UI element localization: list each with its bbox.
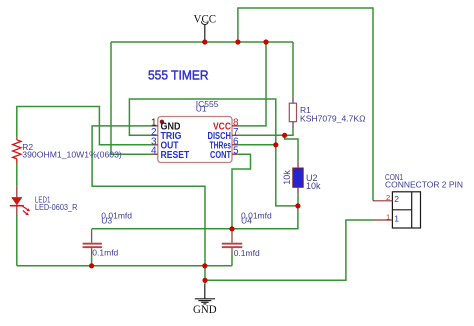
svg-text:U1: U1 [196,104,207,114]
C4 bottom lead [231,248,233,254]
svg-text:0.1mfd: 0.1mfd [234,248,260,258]
C3 top lead [91,229,93,242]
junction dot pin7 / R1 [282,133,287,138]
junction dot C4 top / pin5 [229,226,234,231]
wire pin5 CONT jog down to C4 top [232,154,251,229]
LED1 triangle [11,197,22,205]
wire bottom ground rail [17,265,232,267]
CON1 inner vertical divider [411,192,413,228]
svg-text:10k: 10k [282,170,292,185]
capacitor C4 (U4) top plate [222,243,243,245]
CON1 row divider [392,209,411,211]
svg-text:U4: U4 [241,215,252,225]
junction dot ground / connector [202,278,207,283]
wire R2 top branch [17,107,153,145]
resistor U2 top lead [297,162,299,168]
capacitor C3 (U3) top plate [83,243,102,245]
connector CON1 body [392,192,420,228]
C4 top lead [231,229,233,242]
U1 pin stubs left [153,126,158,154]
capacitor C3 bottom plate [83,246,102,248]
LED1 cathode lead [16,207,18,216]
U1 pin stubs right [232,126,238,154]
svg-text:2: 2 [386,193,390,202]
svg-text:0.1mfd: 0.1mfd [92,247,118,257]
wire LED cathode to ground rail [16,215,18,266]
resistor R2 zigzag [13,140,21,159]
wire pin1 GND around to ground stem [92,126,205,284]
svg-text:4: 4 [151,146,157,157]
svg-text:10k: 10k [306,181,321,191]
junction dot pin6 / loop [273,142,278,147]
svg-text:GND: GND [193,304,217,316]
wire pin8 VCC riser [238,42,266,126]
resistor R1 top lead [292,97,294,103]
svg-text:LED-0603_R: LED-0603_R [35,202,78,212]
C3 bottom lead [91,248,93,256]
svg-text:VCC: VCC [194,13,217,25]
wire VCC mid rail horizontal [111,41,293,43]
LED1 cathode bar [10,205,24,207]
wire top rail to connector [238,8,373,201]
capacitor C4 bottom plate [222,246,243,248]
wire pin7 junction down to U2 top [285,135,298,162]
IC555 U1 body [158,117,232,163]
R2 bottom red stub [16,159,18,164]
svg-text:CONNECTOR 2 PIN: CONNECTOR 2 PIN [385,181,463,190]
wire pin6 THRes stub [238,144,276,146]
wire ground to connector pin1 [205,220,373,280]
svg-text:RESET: RESET [161,149,190,161]
svg-text:5: 5 [233,146,239,157]
wire R2 to LED mid segment [16,164,18,186]
junction dot U2 bottom [295,203,300,208]
junction dot top rail left [235,39,240,44]
resistor U2 body (SMD) [293,168,303,187]
svg-text:1: 1 [394,214,399,224]
wire TRIG loop over IC to THRes [129,99,298,206]
junction dot VCC rail [202,39,207,44]
wire R1 bottom to pin7 DISCH [238,129,293,136]
IC555 U1 pin-1 marker dot [160,120,164,124]
junction dot ground rail [202,263,207,268]
junction dot pin8 riser [263,39,268,44]
GND power symbol [204,284,206,299]
svg-text:CONT: CONT [210,149,231,161]
resistor R1 bottom lead [292,122,294,129]
CON1 pin 1 stub [373,219,392,221]
R2 top red stub [16,138,18,140]
CON1 pin 2 stub [373,200,392,202]
resistor R1 body [289,103,296,122]
svg-text:U3: U3 [101,215,112,225]
LED1 anode lead [16,186,18,197]
resistor U2 bottom lead [297,187,299,194]
svg-text:390OHM1_10W1%(0603): 390OHM1_10W1%(0603) [22,150,122,160]
wire C3 bottom lead [91,256,93,266]
wire U2 bottom down and across to C3 top [92,206,298,229]
svg-text:555 TIMER: 555 TIMER [148,68,209,83]
wire R1 top riser [292,42,294,97]
LED1 emission arrows [23,206,31,215]
junction dot C3 bottom rail [89,263,94,268]
svg-text:1: 1 [386,212,390,221]
wire C4 bottom lead [231,254,233,266]
wire U2 bottom lead [297,194,299,206]
wire VCC rail left drop to pin4 RESET [111,42,153,154]
svg-text:2: 2 [394,194,399,204]
svg-text:KSH7079_4.7KΩ: KSH7079_4.7KΩ [300,113,366,123]
